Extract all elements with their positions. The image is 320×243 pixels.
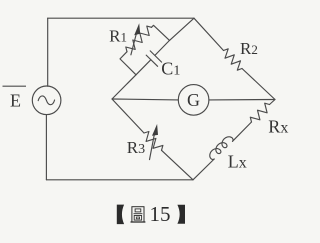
svg-text:R1: R1 bbox=[109, 26, 127, 45]
svg-text:Lx: Lx bbox=[228, 152, 247, 172]
svg-text:G: G bbox=[187, 90, 200, 110]
svg-text:R3: R3 bbox=[127, 138, 145, 157]
svg-text:C1: C1 bbox=[161, 59, 180, 79]
svg-text:R2: R2 bbox=[240, 39, 258, 58]
svg-text:Rx: Rx bbox=[268, 117, 288, 137]
svg-text:E: E bbox=[10, 91, 21, 111]
svg-text:15: 15 bbox=[150, 202, 171, 226]
